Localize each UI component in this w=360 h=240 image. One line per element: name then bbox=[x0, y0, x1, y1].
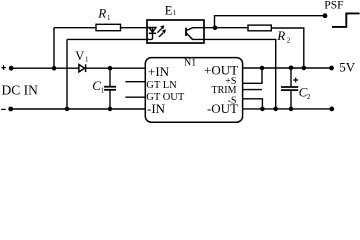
wire PSF riser bbox=[215, 16, 326, 28]
wire top rail to R1 bbox=[54, 27, 96, 29]
svg-text:PSF: PSF bbox=[324, 0, 343, 11]
step waveform symbol bbox=[332, 13, 360, 27]
svg-text:1: 1 bbox=[173, 9, 177, 17]
phototransistor inside E1 bbox=[186, 28, 204, 40]
svg-text:5V: 5V bbox=[339, 60, 356, 75]
node R2 to rail bbox=[302, 66, 307, 71]
node cathode riser to bottom rail bbox=[65, 107, 70, 112]
node junction at riser to R1 bbox=[52, 66, 57, 71]
node -S to rail bbox=[260, 107, 265, 112]
wire bottom rail from -OUT bbox=[243, 108, 332, 110]
capacitor C1 bbox=[104, 68, 116, 109]
resistor R2 bbox=[248, 25, 271, 31]
node C1 bottom bbox=[108, 107, 113, 112]
wire -S strap to -OUT rail bbox=[243, 99, 263, 109]
wire LED cathode to left riser bbox=[67, 38, 153, 40]
svg-text:V: V bbox=[75, 49, 84, 63]
node C2 top junction bbox=[289, 66, 294, 71]
wire 5V rail from +OUT bbox=[243, 67, 332, 69]
stub GT LN bbox=[125, 81, 145, 83]
label C1 bbox=[92, 78, 104, 94]
svg-text:R: R bbox=[97, 5, 106, 20]
LED arrows bbox=[157, 25, 166, 37]
node collector PSF tap bbox=[213, 25, 218, 30]
svg-text:+IN: +IN bbox=[148, 64, 170, 79]
svg-text:1: 1 bbox=[101, 86, 105, 94]
wire emitter to TRIM column bbox=[204, 39, 276, 109]
node PSF terminal bbox=[323, 13, 328, 18]
svg-text:DC IN: DC IN bbox=[2, 83, 39, 98]
svg-text:E: E bbox=[165, 3, 173, 17]
optocoupler box E1 bbox=[147, 20, 204, 43]
stub GT OUT bbox=[125, 96, 145, 98]
node C1 junction top bbox=[108, 66, 113, 71]
wire bottom rail to -IN bbox=[11, 108, 146, 110]
svg-text:2: 2 bbox=[287, 37, 291, 45]
label V1 bbox=[75, 49, 89, 64]
label R1 bbox=[97, 5, 111, 22]
node bottom right terminal bbox=[329, 107, 334, 112]
node - terminal (DC IN minus) bbox=[1, 107, 13, 112]
svg-text:1: 1 bbox=[85, 55, 89, 63]
node + terminal (DC IN plus) bbox=[1, 65, 13, 70]
node C2 bottom bbox=[289, 107, 294, 112]
wire +S strap to +OUT rail bbox=[243, 68, 262, 83]
resistor R1 bbox=[96, 24, 121, 30]
wire riser up to top rail bbox=[53, 28, 55, 68]
svg-text:GT LN: GT LN bbox=[146, 80, 177, 91]
stub TRIM bbox=[243, 89, 262, 91]
node emitter to bottom rail bbox=[273, 107, 278, 112]
wire R1 to optocoupler bbox=[121, 27, 154, 29]
node +S to rail bbox=[260, 66, 265, 71]
svg-text:-IN: -IN bbox=[147, 101, 166, 116]
wire R2 to 5V rail bbox=[271, 28, 304, 68]
IC N1 box bbox=[145, 58, 242, 123]
svg-text:-OUT: -OUT bbox=[207, 101, 238, 116]
svg-text:R: R bbox=[276, 28, 285, 43]
wire + input rail bbox=[11, 67, 79, 69]
diode V1 bbox=[79, 64, 145, 72]
label E1 bbox=[165, 3, 177, 17]
wire collector to R2 bbox=[204, 27, 248, 29]
svg-text:1: 1 bbox=[107, 14, 111, 22]
svg-text:N1: N1 bbox=[184, 57, 196, 68]
capacitor C2 bbox=[281, 68, 298, 109]
label C2 plus polarity bbox=[293, 78, 311, 102]
node 5V terminal bbox=[329, 66, 334, 71]
svg-text:2: 2 bbox=[307, 93, 311, 101]
LED inside E1 bbox=[149, 27, 156, 39]
label R2 bbox=[276, 28, 291, 45]
wire cathode riser down to bottom rail bbox=[66, 39, 68, 109]
